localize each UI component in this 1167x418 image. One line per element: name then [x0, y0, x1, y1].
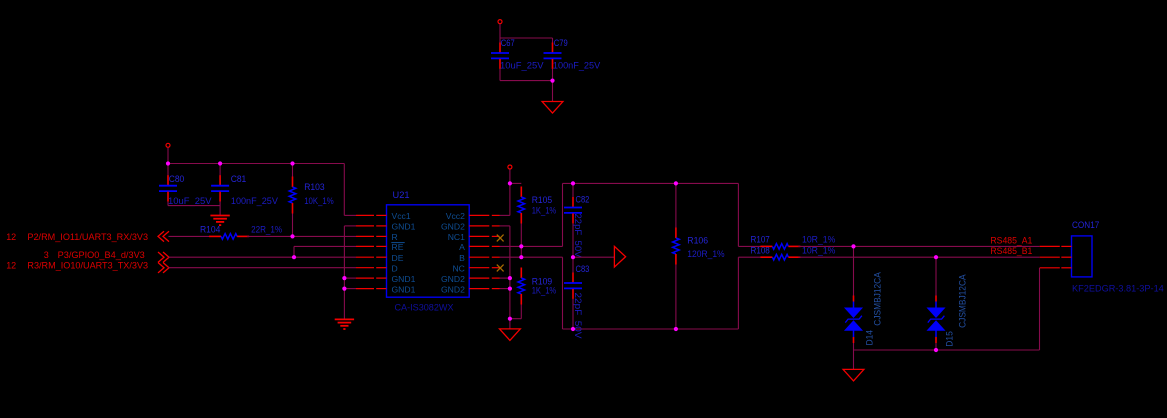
junction	[218, 161, 222, 165]
junction	[674, 327, 678, 331]
wire	[510, 318, 521, 320]
svg-text:12: 12	[6, 261, 16, 271]
pin stub U21 right 10 (GND2)	[469, 225, 499, 227]
junction	[550, 79, 554, 83]
svg-text:22pF_50V: 22pF_50V	[573, 293, 583, 339]
svg-text:C83: C83	[576, 264, 590, 274]
svg-text:3: 3	[44, 250, 49, 260]
svg-text:KF2EDGR-3.81-3P-14: KF2EDGR-3.81-3P-14	[1072, 283, 1164, 293]
wire	[552, 38, 554, 44]
resistor R108	[760, 254, 800, 260]
pin stub U21 right 13 (B)	[469, 256, 499, 258]
wire	[509, 169, 511, 183]
resistor R107	[760, 244, 800, 250]
svg-text:R108: R108	[751, 246, 770, 256]
pin stub CON17 pin3	[1040, 267, 1072, 269]
wire	[293, 246, 295, 257]
wire	[292, 164, 294, 178]
resistor R103	[289, 177, 296, 214]
wire	[344, 214, 356, 216]
wire	[344, 288, 356, 290]
svg-text:A: A	[459, 242, 465, 252]
wire	[168, 163, 344, 165]
svg-text:DE: DE	[392, 253, 404, 263]
svg-text:1K_1%: 1K_1%	[532, 285, 557, 295]
wire	[219, 164, 221, 177]
ground (below C67/C79)	[542, 102, 563, 114]
pin stub CON17 pin2	[1040, 256, 1072, 258]
wire	[294, 245, 356, 247]
pin stub U21 left 8 (GND1)	[356, 288, 387, 290]
wire	[167, 164, 169, 177]
svg-text:CA-IS3082WX: CA-IS3082WX	[395, 303, 454, 313]
wire	[572, 183, 574, 197]
pin stub U21 left 2 (GND1)	[356, 225, 387, 227]
wire	[572, 299, 574, 329]
wire	[247, 235, 292, 237]
svg-text:NC: NC	[452, 264, 464, 274]
pin stub U21 right 14 (NC)	[469, 267, 499, 269]
wire	[854, 349, 1040, 351]
svg-text:RE: RE	[392, 242, 404, 252]
wire	[219, 202, 221, 216]
pin stub U21 right 15 (GND2)	[469, 277, 499, 279]
wire	[520, 305, 522, 319]
svg-text:22R_1%: 22R_1%	[251, 225, 282, 235]
wire	[169, 235, 212, 237]
wire	[169, 256, 295, 258]
svg-text:GND1: GND1	[392, 274, 416, 284]
ground (below U21)	[335, 319, 354, 329]
pin stub U21 right 9 (Vcc2)	[469, 214, 499, 216]
wire	[499, 69, 501, 81]
junction	[292, 255, 296, 259]
wire	[738, 256, 763, 258]
wire	[798, 245, 1039, 247]
pin stub CON17 pin1	[1040, 245, 1072, 247]
resistor R105	[518, 187, 525, 224]
svg-text:GND2: GND2	[441, 274, 465, 284]
junction	[571, 327, 575, 331]
wire	[500, 214, 510, 216]
wire	[500, 256, 563, 258]
svg-text:R103: R103	[304, 182, 324, 192]
junction	[290, 234, 294, 238]
junction	[571, 255, 575, 259]
wire	[520, 246, 522, 257]
svg-text:CJSMBJ12CA: CJSMBJ12CA	[872, 272, 882, 326]
svg-text:10R_1%: 10R_1%	[802, 246, 835, 256]
pin stub U21 right 11 (NC1)	[469, 235, 499, 237]
wire	[675, 183, 677, 227]
wire	[509, 183, 511, 215]
port triangle (C82/C83 midpoint)	[614, 246, 625, 267]
wire	[500, 288, 510, 290]
capacitor C80	[159, 175, 177, 201]
pin stub U21 right 12 (A)	[469, 245, 499, 247]
junction	[166, 161, 170, 165]
wire	[737, 257, 739, 329]
svg-text:22pF_50V: 22pF_50V	[573, 214, 583, 258]
wire	[293, 235, 357, 237]
svg-text:NC1: NC1	[448, 232, 465, 242]
capacitor C83	[564, 273, 582, 299]
capacitor C82	[564, 197, 582, 223]
wire	[499, 38, 501, 44]
svg-text:R3/RM_IO10/UART3_TX/3V3: R3/RM_IO10/UART3_TX/3V3	[27, 261, 148, 271]
wire	[500, 225, 510, 227]
pin stub U21 left 4 (RE)	[356, 245, 387, 247]
svg-text:GND2: GND2	[441, 222, 465, 232]
resistor R109	[518, 268, 525, 305]
junction	[934, 348, 938, 352]
wire	[343, 164, 345, 216]
resistor R104	[209, 234, 249, 240]
sheet-entry arrow >> (UART3_TX)	[158, 263, 169, 273]
overline for RE pin	[391, 242, 404, 244]
junction	[342, 287, 346, 291]
power port 5V_ISO	[508, 165, 512, 169]
wire	[344, 225, 356, 227]
wire	[169, 267, 357, 269]
svg-text:P3/GPIO0_B4_d/3V3: P3/GPIO0_B4_d/3V3	[58, 250, 145, 260]
junction	[674, 181, 678, 185]
pin stub U21 left 6 (D)	[356, 267, 387, 269]
wire	[344, 277, 356, 279]
ground (below C81)	[210, 216, 229, 226]
svg-text:R107: R107	[751, 235, 770, 245]
wire	[675, 265, 677, 330]
svg-text:10R_1%: 10R_1%	[802, 235, 835, 245]
wire	[738, 245, 763, 247]
connector CON17 body	[1072, 236, 1093, 277]
no-connect X on NC	[497, 265, 504, 272]
svg-text:D14: D14	[864, 330, 874, 346]
svg-text:10uF_25V: 10uF_25V	[500, 61, 544, 71]
svg-text:D: D	[392, 264, 398, 274]
wire	[510, 182, 521, 184]
svg-text:100nF_25V: 100nF_25V	[231, 196, 279, 206]
wire	[167, 148, 169, 164]
svg-text:R106: R106	[687, 236, 708, 246]
svg-text:CON17: CON17	[1072, 220, 1099, 230]
wire	[935, 257, 937, 295]
junction	[290, 161, 294, 165]
svg-text:U21: U21	[393, 190, 410, 200]
svg-text:GND2: GND2	[441, 284, 465, 294]
wire	[552, 81, 554, 102]
wire	[343, 226, 345, 320]
junction	[934, 255, 938, 259]
junction	[519, 255, 523, 259]
pin stub U21 right 16 (GND2)	[469, 288, 499, 290]
svg-text:D15: D15	[945, 331, 955, 347]
svg-text:C67: C67	[501, 38, 515, 48]
wire	[552, 69, 554, 81]
wire	[853, 246, 855, 295]
wire	[572, 257, 574, 272]
pin stub U21 left 5 (DE)	[356, 256, 387, 258]
capacitor C67	[491, 43, 509, 69]
wire	[737, 183, 739, 246]
transistor-style TVS diode D14 (CJSMBJ12CA)	[845, 296, 862, 344]
pin stub U21 left 7 (GND1)	[356, 277, 387, 279]
svg-text:10K_1%: 10K_1%	[304, 196, 334, 206]
svg-text:R105: R105	[532, 195, 552, 205]
svg-text:P2/RM_IO11/UART3_RX/3V3: P2/RM_IO11/UART3_RX/3V3	[27, 232, 148, 242]
svg-text:C82: C82	[576, 194, 590, 204]
sheet-entry arrow >> (GPIO0_B4)	[158, 252, 169, 262]
wire	[1039, 268, 1041, 350]
svg-text:C81: C81	[231, 174, 247, 184]
pin stub U21 left 3 (R)	[356, 235, 387, 237]
wire	[500, 277, 510, 279]
wire	[563, 182, 739, 184]
junction	[508, 276, 512, 280]
capacitor C79	[544, 43, 562, 69]
wire	[562, 183, 564, 246]
svg-text:CJSMBJ12CA: CJSMBJ12CA	[958, 274, 968, 328]
junction	[571, 181, 575, 185]
transistor-style TVS diode D15 (CJSMBJ12CA)	[928, 296, 945, 344]
svg-text:RS485_B1: RS485_B1	[990, 246, 1032, 256]
wire	[499, 24, 501, 38]
power port (top, C67/C79 supply)	[498, 20, 502, 24]
wire	[572, 223, 574, 257]
svg-text:GND1: GND1	[392, 222, 416, 232]
wire	[509, 226, 511, 329]
svg-text:10uF_25V: 10uF_25V	[168, 196, 212, 206]
wire	[292, 214, 294, 237]
svg-text:12: 12	[6, 232, 16, 242]
junction	[508, 317, 512, 321]
wire	[853, 350, 855, 369]
junction	[342, 276, 346, 280]
capacitor C81	[211, 175, 229, 201]
wire	[500, 37, 553, 39]
pin stub U21 left 1 (Vcc1)	[356, 214, 387, 216]
junction	[508, 287, 512, 291]
op-amp U21 body (CA-IS3082WX transceiver)	[387, 205, 470, 297]
junction	[508, 181, 512, 185]
wire	[520, 224, 522, 247]
ground (GND2 isolated)	[500, 329, 521, 341]
wire	[167, 202, 169, 206]
wire	[500, 245, 563, 247]
svg-text:B: B	[459, 253, 465, 263]
sheet-entry arrow << (UART3_RX)	[158, 231, 169, 241]
wire	[168, 205, 220, 207]
wire	[563, 328, 739, 330]
junction	[851, 244, 855, 248]
wire	[573, 256, 614, 258]
wire	[853, 343, 855, 350]
wire	[500, 80, 553, 82]
svg-text:RS485_A1: RS485_A1	[990, 235, 1032, 245]
svg-text:R104: R104	[200, 225, 220, 235]
svg-text:120R_1%: 120R_1%	[687, 249, 724, 259]
power port 3V3 (left)	[166, 143, 170, 147]
wire	[935, 343, 937, 350]
svg-text:GND1: GND1	[392, 284, 416, 294]
svg-text:Vcc1: Vcc1	[392, 211, 411, 221]
svg-text:R: R	[392, 232, 398, 242]
svg-text:C80: C80	[169, 174, 185, 184]
wire	[562, 257, 564, 329]
wire	[798, 256, 1039, 258]
svg-text:C79: C79	[554, 38, 568, 48]
junction	[519, 244, 523, 248]
svg-text:1K_1%: 1K_1%	[532, 206, 557, 216]
no-connect X on NC1	[497, 235, 504, 242]
ground (TVS / connector)	[843, 369, 864, 381]
resistor R106	[673, 228, 680, 265]
wire	[294, 256, 356, 258]
svg-text:Vcc2: Vcc2	[446, 211, 465, 221]
svg-text:100nF_25V: 100nF_25V	[553, 61, 601, 71]
